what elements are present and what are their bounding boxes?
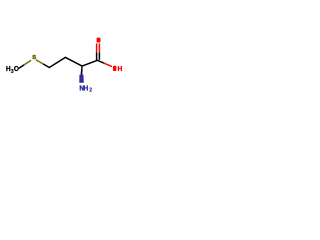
bond CH2-CH2 — [49, 57, 65, 67]
bond S-CH2 left half (olive) — [36, 60, 43, 64]
atom label NH2 (amino group) — [79, 85, 92, 93]
atom label OH (hydroxyl): O glyph — [113, 66, 117, 71]
bond C-S left half (black, carbon side) — [18, 65, 24, 69]
background — [0, 0, 130, 130]
double bond C=O outer line, lower half (black) — [96, 52, 98, 60]
double bond C=O inner line, lower half (black) — [98, 52, 100, 60]
wedge bond CA-N lower half (blue, nitrogen side) — [79, 75, 84, 83]
atom label O (carbonyl oxygen, solid glyph) — [97, 38, 101, 43]
double bond C=O inner line, upper half (red) — [98, 43, 100, 52]
svg-text:H: H — [6, 66, 11, 73]
wedge bond CA-N upper half (black) — [81, 66, 83, 75]
bond C-OH left half (black) — [97, 60, 104, 63]
bond C-OH right half (red, oxygen side) — [104, 63, 111, 66]
svg-text:C: C — [14, 66, 19, 73]
bond CH2-CA (to stereocenter) — [65, 57, 82, 66]
svg-text:H: H — [118, 66, 123, 73]
svg-text:H: H — [83, 85, 88, 92]
double bond C=O outer line, upper half (red) — [96, 43, 98, 52]
atom label H3C (methyl group) — [6, 66, 19, 75]
bond C-S right half (olive, sulfur side) — [24, 61, 30, 65]
svg-text:2: 2 — [89, 87, 92, 93]
svg-text:S: S — [32, 55, 36, 61]
bond S-CH2 right half (black) — [44, 64, 50, 67]
bond CA-C carboxyl — [82, 60, 97, 66]
